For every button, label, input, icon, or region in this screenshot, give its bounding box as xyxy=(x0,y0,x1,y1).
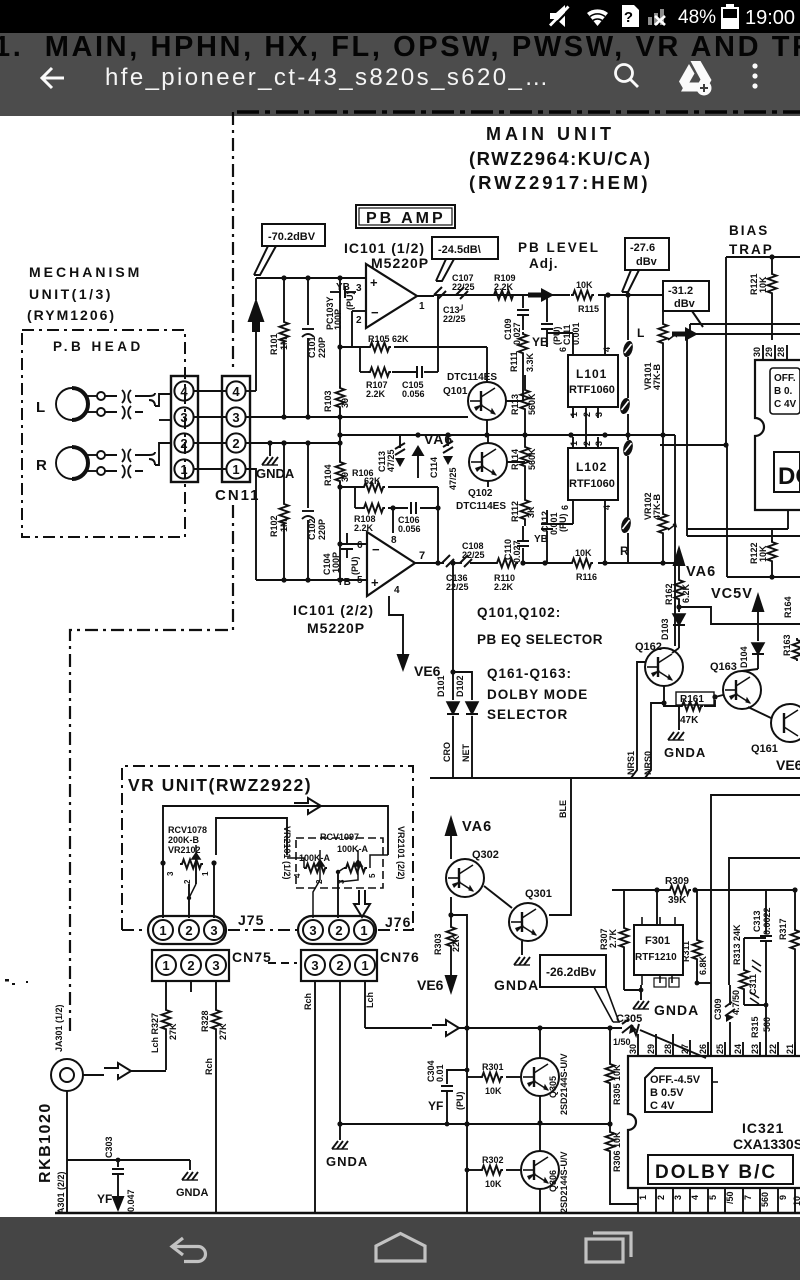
inductor L102 RTF1060 xyxy=(560,435,618,512)
capacitor C110 0.027 xyxy=(503,526,529,563)
ground GNDA right of C303 xyxy=(176,1172,208,1199)
resistor R327 27K Lch xyxy=(150,995,178,1070)
svg-text:6.2K: 6.2K xyxy=(681,583,691,603)
svg-text:D101: D101 xyxy=(436,675,446,697)
capacitor C112 0.001 (PU) xyxy=(534,510,568,563)
resistor R307 2.7K xyxy=(599,890,629,990)
IC321 top pin stubs xyxy=(638,1034,795,1056)
svg-text:3: 3 xyxy=(232,410,239,425)
svg-text:C305: C305 xyxy=(616,1013,642,1025)
VA6 supply arrow xyxy=(412,431,454,478)
wire R309 row y890 xyxy=(612,890,795,938)
svg-text:6.8K: 6.8K xyxy=(698,955,708,975)
test point xyxy=(622,340,635,358)
svg-text:10K: 10K xyxy=(485,1086,502,1096)
svg-text:22/25: 22/25 xyxy=(462,550,485,560)
mechanism connector xyxy=(171,376,198,482)
svg-text:2: 2 xyxy=(232,436,239,451)
svg-text:0.047: 0.047 xyxy=(126,1189,136,1212)
svg-text:1: 1 xyxy=(180,462,187,477)
svg-text:R311: R311 xyxy=(681,941,691,962)
svg-text:C114: C114 xyxy=(429,457,439,478)
svg-text:10K: 10K xyxy=(575,548,592,558)
potentiometer VR102 47K-B xyxy=(643,435,676,563)
svg-text:3: 3 xyxy=(673,1195,683,1200)
svg-text:NET: NET xyxy=(461,743,471,762)
svg-text:25: 25 xyxy=(715,1044,725,1054)
svg-text:DTC114ES: DTC114ES xyxy=(456,501,506,512)
svg-text:Q305: Q305 xyxy=(548,1076,558,1098)
ground bus y1124 xyxy=(340,1123,610,1125)
resistor R110 2.2K xyxy=(495,559,518,568)
svg-text:2.7K: 2.7K xyxy=(608,928,618,948)
svg-text:Q163: Q163 xyxy=(710,661,737,673)
resistor R311 6.8K xyxy=(681,938,708,985)
IC321 body xyxy=(628,1056,800,1188)
capacitor C113 47/25 xyxy=(377,435,405,472)
sim card question icon xyxy=(622,5,639,27)
svg-text:47K-B: 47K-B xyxy=(652,493,662,520)
IC301 OFF level box xyxy=(770,368,800,414)
svg-text:10K: 10K xyxy=(758,276,768,293)
svg-text:R111: R111 xyxy=(509,351,519,372)
svg-text:22: 22 xyxy=(768,1044,778,1054)
svg-text:1M: 1M xyxy=(279,337,289,350)
svg-text:-31.2: -31.2 xyxy=(668,285,693,297)
svg-text:DOLBY B/C: DOLBY B/C xyxy=(655,1162,777,1183)
VC5V supply arrow xyxy=(711,586,765,641)
svg-text:L102: L102 xyxy=(576,460,607,474)
svg-text:Lch: Lch xyxy=(365,992,375,1008)
svg-text:JA301 (1/2): JA301 (1/2) xyxy=(54,1004,64,1052)
svg-text:10K: 10K xyxy=(485,1179,502,1189)
resistor R162 6.2K xyxy=(675,578,684,601)
svg-text:L: L xyxy=(637,326,644,340)
svg-text:PB AMP: PB AMP xyxy=(366,210,446,227)
VA6 supply arrow mid xyxy=(673,545,717,580)
svg-text:3K: 3K xyxy=(526,506,536,518)
PB AMP box xyxy=(356,205,455,228)
svg-text:4: 4 xyxy=(690,1195,700,1200)
capacitor C311 TX xyxy=(748,960,761,1004)
svg-text:29: 29 xyxy=(646,1044,656,1054)
resistor R116 10K xyxy=(570,559,593,568)
svg-text:R114: R114 xyxy=(510,449,520,470)
svg-text:RKB1020: RKB1020 xyxy=(37,1102,54,1183)
CN11 pin2 row wire xyxy=(246,442,340,444)
CN11 pin3 row wire xyxy=(246,416,468,418)
svg-text:RTF1210: RTF1210 xyxy=(635,952,677,963)
resistor R302 10K xyxy=(465,1155,521,1189)
svg-text:2SD2144S-U/V: 2SD2144S-U/V xyxy=(559,1053,569,1115)
svg-text:OFF.-4.5V: OFF.-4.5V xyxy=(650,1074,701,1086)
ground GNDA under Q301 xyxy=(494,957,539,993)
svg-text:VR2101 (2/2): VR2101 (2/2) xyxy=(396,826,406,880)
capacitor C136 22/25 xyxy=(442,555,454,567)
svg-text:GNDA: GNDA xyxy=(326,1154,368,1169)
svg-text:6: 6 xyxy=(357,540,363,551)
resistor R313 24K xyxy=(732,924,766,1005)
svg-text:47K-B: 47K-B xyxy=(652,363,662,390)
svg-text:GNDA: GNDA xyxy=(176,1187,208,1199)
svg-text:R163: R163 xyxy=(782,634,792,656)
IC301 top pins xyxy=(763,345,787,360)
svg-text:5: 5 xyxy=(368,873,377,878)
svg-text:OFF.: OFF. xyxy=(774,373,796,384)
svg-text:Q302: Q302 xyxy=(472,849,499,861)
svg-text:−: − xyxy=(372,542,380,557)
potentiometer VR2101(2/2) xyxy=(336,850,388,918)
svg-text:VE6: VE6 xyxy=(776,757,800,773)
svg-text:560K: 560K xyxy=(527,393,537,415)
back nav icon xyxy=(172,1238,206,1262)
svg-text:−: − xyxy=(371,305,379,320)
svg-text:hfe_pioneer_ct-43_s820s_s620_…: hfe_pioneer_ct-43_s820s_s620_… xyxy=(105,64,551,91)
svg-text:(PU): (PU) xyxy=(552,327,562,346)
svg-text:B 0.5V: B 0.5V xyxy=(650,1087,684,1099)
svg-text:R306 10K: R306 10K xyxy=(612,1131,622,1172)
IC321 bottom pin stubs xyxy=(638,1188,795,1213)
svg-text:4: 4 xyxy=(232,384,240,399)
resistor R104 39 xyxy=(336,460,345,483)
BLE wire xyxy=(549,778,571,915)
svg-text:R112: R112 xyxy=(510,501,520,522)
svg-text:Q102: Q102 xyxy=(468,488,493,499)
svg-text:4.7/50: 4.7/50 xyxy=(731,990,741,1015)
svg-text:Q161: Q161 xyxy=(751,743,778,755)
transistor Q306 xyxy=(521,1151,559,1189)
capacitor C111 0.001 (PU) xyxy=(541,295,581,347)
main bus y778 xyxy=(430,777,800,779)
capacitor C101 220P xyxy=(302,278,327,417)
svg-text:UNIT(1/3): UNIT(1/3) xyxy=(29,286,113,302)
svg-text:0.0022: 0.0022 xyxy=(762,907,772,935)
svg-text:Q101,Q102:: Q101,Q102: xyxy=(477,605,561,620)
svg-text:TRAP: TRAP xyxy=(729,242,774,257)
svg-text:24: 24 xyxy=(733,1044,743,1054)
ground GNDA under F301 xyxy=(624,985,699,1018)
capacitor C105 0.056 xyxy=(417,366,422,378)
transistor Q163 xyxy=(723,671,761,709)
svg-text:Q301: Q301 xyxy=(525,888,552,900)
svg-text:48%: 48% xyxy=(678,7,716,28)
svg-text:dBv: dBv xyxy=(674,298,696,310)
CN11 pin1 wire to lower op-amp xyxy=(246,469,256,580)
svg-text:YB: YB xyxy=(534,534,548,545)
svg-text:C303: C303 xyxy=(104,1136,114,1158)
main wire after op-amp1 y295 xyxy=(417,295,663,296)
svg-text:J75: J75 xyxy=(238,912,264,928)
svg-text:R309: R309 xyxy=(665,876,689,887)
minus input row y544 xyxy=(256,544,367,580)
svg-text:28: 28 xyxy=(776,347,786,357)
svg-text:3: 3 xyxy=(212,958,219,973)
search icon xyxy=(616,65,639,88)
svg-text:2: 2 xyxy=(185,923,192,938)
svg-text:RTF1060: RTF1060 xyxy=(569,478,615,490)
resistor R113 560K xyxy=(510,375,537,435)
svg-text:2: 2 xyxy=(336,958,343,973)
svg-text:2: 2 xyxy=(656,1195,666,1200)
connector CN11 xyxy=(215,376,261,504)
svg-text:28: 28 xyxy=(663,1044,673,1054)
potentiometer VR2102 RCV1078 200K-B xyxy=(160,825,216,918)
NRS1 NRS0 wires xyxy=(631,662,664,778)
svg-text:VR2101 (1/2): VR2101 (1/2) xyxy=(282,826,292,880)
op-amp2 output wire y563 xyxy=(415,562,675,564)
RCV1097 dashed box xyxy=(296,838,383,888)
potentiometer VR2101(1/2) xyxy=(287,850,327,918)
scan specks left margin xyxy=(5,979,28,985)
svg-text:6: 6 xyxy=(558,347,568,352)
svg-text:IC321: IC321 xyxy=(742,1120,784,1136)
svg-text:GNDA: GNDA xyxy=(654,1002,699,1018)
svg-text:VC5V: VC5V xyxy=(711,586,753,602)
op-amp U=IC101 (1/2) xyxy=(356,264,425,328)
svg-text:2.2K: 2.2K xyxy=(354,523,374,533)
signal arrow xyxy=(528,288,554,302)
svg-text:P.B HEAD: P.B HEAD xyxy=(53,339,144,354)
phono jack JA301(1/2) xyxy=(51,1004,104,1091)
test point xyxy=(622,439,635,457)
document bottom table line xyxy=(55,1212,800,1214)
capacitor C104 100P YB (PU) xyxy=(322,533,360,588)
input bus y1028 with arrow xyxy=(365,1027,622,1029)
svg-text:?: ? xyxy=(624,9,633,26)
bias trap wires xyxy=(660,257,800,445)
wires around L102 xyxy=(547,435,628,563)
svg-text:J76: J76 xyxy=(385,914,411,930)
svg-text:1: 1 xyxy=(162,958,169,973)
capacitor C309 4.7/50 xyxy=(713,985,741,1056)
svg-text:GNDA: GNDA xyxy=(256,466,295,481)
svg-text:CN76: CN76 xyxy=(380,949,420,965)
svg-text:NRS0: NRS0 xyxy=(643,751,653,775)
svg-text:7: 7 xyxy=(743,1195,753,1200)
svg-text:22/25: 22/25 xyxy=(452,282,475,292)
svg-text:R102: R102 xyxy=(269,515,279,537)
svg-text:CXA1330S: CXA1330S xyxy=(733,1136,800,1152)
resistor R107 2.2K xyxy=(368,368,391,377)
title MAIN UNIT xyxy=(469,124,652,193)
resistor R303 22K xyxy=(433,925,461,962)
svg-text:62K: 62K xyxy=(364,476,381,486)
svg-text:R115: R115 xyxy=(578,304,599,314)
svg-text:27K: 27K xyxy=(218,1023,228,1040)
ground GNDA at CN11 xyxy=(256,443,295,481)
test point xyxy=(619,397,632,415)
Q305 wires xyxy=(539,1028,541,1152)
svg-text:R101: R101 xyxy=(269,333,279,355)
long rails to IC xyxy=(697,795,800,1056)
resistor R102 1M xyxy=(269,443,289,580)
navigation bar xyxy=(0,1217,800,1280)
MAIN UNIT board outline (dash-dot) top edge xyxy=(70,112,800,1032)
overflow dots xyxy=(752,63,757,88)
svg-text:C313: C313 xyxy=(752,910,762,932)
svg-text:1: 1 xyxy=(569,412,579,417)
svg-text:3: 3 xyxy=(594,412,604,417)
svg-text:47/25: 47/25 xyxy=(386,449,396,472)
resistor R112 3K xyxy=(510,478,536,526)
svg-text:(PU): (PU) xyxy=(455,1092,465,1111)
svg-text:dBv: dBv xyxy=(636,256,658,268)
svg-text:4: 4 xyxy=(293,873,302,878)
svg-text:CN11: CN11 xyxy=(215,487,261,504)
svg-text:YF: YF xyxy=(97,1192,112,1206)
resistor R111 3.3K xyxy=(509,332,535,401)
svg-text:R317: R317 xyxy=(778,918,788,940)
open down arrow to J76 pin1 xyxy=(354,890,370,917)
svg-text:+: + xyxy=(370,275,378,290)
svg-text:C101: C101 xyxy=(307,336,317,358)
svg-text:4: 4 xyxy=(180,384,188,399)
callout -26.2dBv xyxy=(540,955,619,1022)
svg-text:1: 1 xyxy=(419,301,425,312)
mid bus y435 xyxy=(340,434,675,436)
svg-text:3: 3 xyxy=(594,441,604,446)
resistor R114 560K xyxy=(510,435,537,478)
svg-text:DOLBY MODE: DOLBY MODE xyxy=(487,687,588,702)
Q302/Q301 wires xyxy=(451,886,522,1028)
svg-text:3: 3 xyxy=(311,958,318,973)
svg-text:1: 1 xyxy=(232,462,239,477)
svg-text:D102: D102 xyxy=(455,675,465,697)
diode D102 with NET wire xyxy=(453,672,478,778)
transistor Q305 xyxy=(521,1058,559,1096)
svg-text:VA6: VA6 xyxy=(686,564,716,580)
svg-text:23: 23 xyxy=(750,1044,760,1054)
callout -27.6dBv xyxy=(622,238,669,292)
svg-text:29: 29 xyxy=(764,347,774,357)
capacitor C313 0.0022 xyxy=(752,890,772,1005)
resistor R161 47K xyxy=(661,686,717,726)
transistor Q301 xyxy=(509,903,547,941)
VA6 arrow to Q302 xyxy=(445,815,493,859)
resistor R122 10K xyxy=(749,529,777,580)
svg-text:C311: C311 xyxy=(748,974,758,995)
svg-text:Q101: Q101 xyxy=(443,386,468,397)
feedback row y347: resistor R105 62K xyxy=(340,296,438,372)
callout -31.2dBv xyxy=(663,281,709,327)
VE6 arrow below op-amp2 xyxy=(389,596,441,679)
svg-text:R103: R103 xyxy=(323,390,333,412)
svg-text:2: 2 xyxy=(187,958,194,973)
svg-text:1: 1 xyxy=(360,923,367,938)
svg-text:19:00: 19:00 xyxy=(745,7,795,29)
svg-text:560: 560 xyxy=(762,1017,772,1032)
DOLBY B/C box xyxy=(648,1155,793,1184)
potentiometer VR101 47K-B xyxy=(643,295,676,435)
svg-text:1M: 1M xyxy=(279,519,289,532)
svg-text:M5220P: M5220P xyxy=(371,255,429,271)
svg-text:R113: R113 xyxy=(510,394,520,415)
svg-text:3.3K: 3.3K xyxy=(525,352,535,372)
svg-text:3: 3 xyxy=(210,923,217,938)
home nav icon xyxy=(376,1234,425,1262)
svg-text:2: 2 xyxy=(335,923,342,938)
wire rails right mid xyxy=(687,334,800,577)
svg-text:9: 9 xyxy=(778,1195,788,1200)
svg-text:R: R xyxy=(620,544,629,558)
recents nav icon xyxy=(586,1233,631,1262)
ground GNDA under R161 xyxy=(664,706,706,760)
svg-text:30: 30 xyxy=(628,1044,638,1054)
feedback R106 62K xyxy=(340,487,438,563)
svg-text:D103: D103 xyxy=(660,618,670,640)
title MECHANISM UNIT xyxy=(27,264,142,323)
svg-text:R164: R164 xyxy=(783,596,793,618)
Q163 base wire xyxy=(715,669,771,718)
svg-text:26: 26 xyxy=(698,1044,708,1054)
svg-text:Rch: Rch xyxy=(204,1058,214,1075)
svg-text:MECHANISM: MECHANISM xyxy=(29,264,142,280)
capacitor C114 47/25 xyxy=(429,435,458,490)
callout -24.5dB xyxy=(432,237,498,281)
svg-text:39: 39 xyxy=(340,398,350,408)
svg-text:R313 24K: R313 24K xyxy=(732,924,742,965)
svg-text:22K: 22K xyxy=(451,935,461,952)
svg-text:RCV1097: RCV1097 xyxy=(320,832,359,842)
svg-text:2SD2144S-U/V: 2SD2144S-U/V xyxy=(559,1151,569,1213)
app toolbar overlay xyxy=(0,33,800,116)
svg-text:220P: 220P xyxy=(317,519,327,540)
svg-text:R: R xyxy=(36,457,47,474)
callout -70.2dBV xyxy=(254,224,325,275)
svg-text:R116: R116 xyxy=(576,572,597,582)
wires mech connector to CN11 xyxy=(194,391,226,469)
svg-text:VR UNIT(RWZ2922): VR UNIT(RWZ2922) xyxy=(128,775,312,795)
svg-text:100P: 100P xyxy=(333,309,343,330)
capacitor C304 0.01 YF (PU) xyxy=(426,1060,469,1126)
svg-text:(RYM1206): (RYM1206) xyxy=(27,307,116,323)
mute icon xyxy=(550,5,571,27)
signal bars with x xyxy=(648,9,665,25)
transistor Q102 DTC114ES xyxy=(469,443,507,481)
wifi icon xyxy=(587,9,608,26)
resistor R315 560 xyxy=(744,1003,772,1056)
drive icon xyxy=(679,61,712,96)
capacitor C106 0.056 xyxy=(411,502,416,514)
head coupling symbols xyxy=(105,390,171,478)
svg-text:-27.6: -27.6 xyxy=(630,242,655,254)
svg-text:IC101 (2/2): IC101 (2/2) xyxy=(293,602,374,618)
level out arrow to bias xyxy=(672,327,698,341)
svg-text:GNDA: GNDA xyxy=(664,745,706,760)
svg-text:R104: R104 xyxy=(323,464,333,486)
svg-text:5: 5 xyxy=(708,1195,718,1200)
svg-text:100P: 100P xyxy=(331,552,341,573)
svg-text:R105 62K: R105 62K xyxy=(368,334,409,344)
svg-text:DTC114ES: DTC114ES xyxy=(447,372,497,383)
svg-text:22/25: 22/25 xyxy=(446,582,469,592)
svg-text:3: 3 xyxy=(166,871,175,876)
input rail x340 with R103/R104 xyxy=(339,278,341,580)
resistor R103 39 xyxy=(336,386,345,409)
resistor R301 10K xyxy=(467,1062,521,1096)
resistor R309 39K xyxy=(668,886,691,895)
svg-text:Q161-Q163:: Q161-Q163: xyxy=(487,666,572,681)
svg-text:0.027: 0.027 xyxy=(512,540,522,563)
svg-text:0.056: 0.056 xyxy=(402,389,425,399)
svg-text:(PU): (PU) xyxy=(558,514,568,533)
svg-text:2.2K: 2.2K xyxy=(366,389,386,399)
MAIN UNIT board outline left edge xyxy=(232,112,234,372)
svg-text:21: 21 xyxy=(785,1044,795,1054)
svg-text:3: 3 xyxy=(309,923,316,938)
svg-text:7: 7 xyxy=(419,550,425,562)
signal arrow on rail xyxy=(294,798,321,814)
